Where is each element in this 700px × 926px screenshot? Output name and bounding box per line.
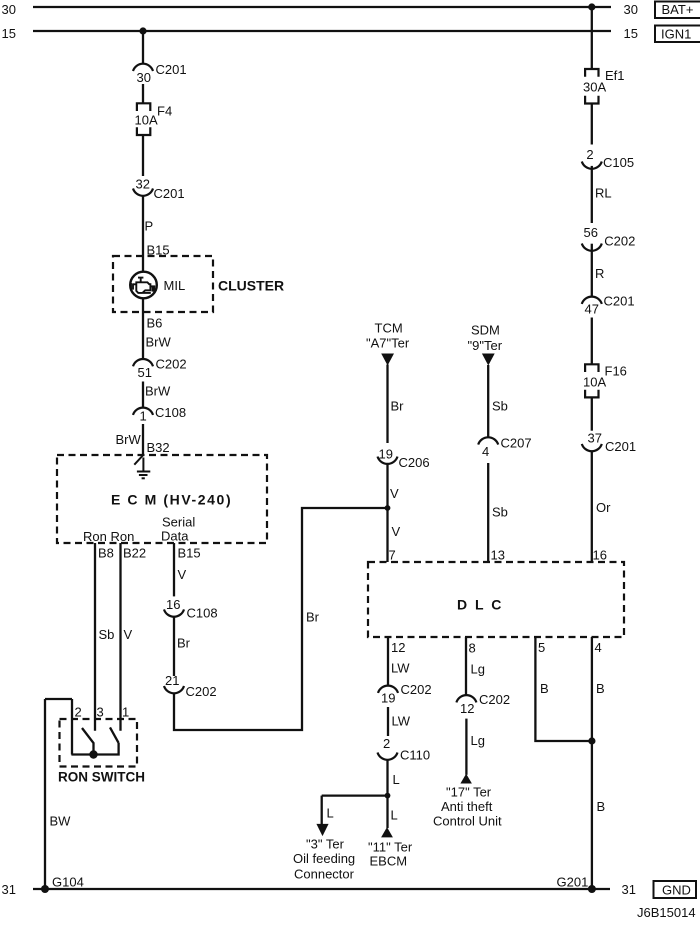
svg-text:C202: C202 [479, 692, 510, 707]
svg-text:C202: C202 [186, 684, 217, 699]
svg-text:C202: C202 [604, 234, 635, 249]
svg-text:Connector: Connector [294, 867, 355, 882]
svg-text:13: 13 [491, 548, 505, 563]
svg-text:L: L [391, 808, 398, 823]
svg-text:4: 4 [482, 444, 489, 459]
svg-text:1: 1 [122, 705, 129, 720]
svg-text:B8: B8 [98, 546, 114, 561]
svg-text:32: 32 [136, 177, 150, 192]
svg-text:15: 15 [624, 26, 638, 41]
svg-text:Lg: Lg [471, 662, 485, 677]
svg-text:B22: B22 [123, 546, 146, 561]
svg-text:Oil feeding: Oil feeding [293, 851, 355, 866]
svg-text:G201: G201 [557, 875, 589, 890]
svg-text:Ron Ron: Ron Ron [83, 529, 134, 544]
svg-text:4: 4 [595, 640, 602, 655]
svg-text:Ef1: Ef1 [605, 68, 625, 83]
svg-text:Serial: Serial [162, 515, 195, 530]
svg-text:SDM: SDM [471, 323, 500, 338]
svg-text:19: 19 [381, 691, 395, 706]
svg-text:10A: 10A [583, 375, 606, 390]
svg-text:5: 5 [538, 640, 545, 655]
svg-text:BAT+: BAT+ [662, 2, 694, 17]
svg-text:3: 3 [97, 705, 104, 720]
svg-text:F16: F16 [605, 364, 627, 379]
svg-text:19: 19 [379, 447, 393, 462]
svg-text:IGN1: IGN1 [661, 27, 691, 42]
svg-text:Lg: Lg [471, 733, 485, 748]
svg-text:V: V [390, 486, 399, 501]
svg-text:C201: C201 [604, 294, 635, 309]
svg-text:V: V [392, 524, 401, 539]
svg-text:Br: Br [391, 399, 405, 414]
svg-text:J6B15014: J6B15014 [637, 905, 696, 920]
svg-text:30: 30 [624, 2, 638, 17]
svg-text:V: V [178, 567, 187, 582]
svg-text:15: 15 [2, 26, 16, 41]
svg-text:C206: C206 [399, 455, 430, 470]
svg-text:LW: LW [391, 661, 410, 676]
svg-text:12: 12 [391, 640, 405, 655]
svg-text:R: R [595, 266, 604, 281]
svg-text:GND: GND [662, 883, 691, 898]
svg-text:CLUSTER: CLUSTER [218, 278, 284, 294]
svg-text:C110: C110 [400, 748, 430, 763]
svg-text:MIL: MIL [164, 278, 186, 293]
svg-text:C108: C108 [187, 606, 218, 621]
svg-text:51: 51 [138, 365, 152, 380]
svg-text:F4: F4 [157, 104, 172, 119]
svg-text:RON SWITCH: RON SWITCH [58, 770, 145, 785]
svg-text:C105: C105 [603, 155, 634, 170]
svg-text:1: 1 [140, 409, 147, 424]
svg-text:C108: C108 [155, 405, 186, 420]
svg-text:47: 47 [585, 302, 599, 317]
svg-text:Control Unit: Control Unit [433, 814, 502, 829]
svg-text:56: 56 [584, 225, 598, 240]
svg-text:8: 8 [469, 641, 476, 656]
svg-text:C202: C202 [156, 357, 187, 372]
svg-text:BrW: BrW [146, 335, 172, 350]
svg-text:31: 31 [2, 882, 16, 897]
svg-text:B: B [597, 799, 606, 814]
svg-text:7: 7 [389, 548, 396, 563]
svg-text:"3" Ter: "3" Ter [306, 837, 345, 852]
svg-text:L: L [393, 772, 400, 787]
svg-text:B15: B15 [178, 546, 201, 561]
svg-text:EBCM: EBCM [370, 854, 408, 869]
svg-text:12: 12 [460, 701, 474, 716]
svg-text:BW: BW [50, 814, 72, 829]
svg-text:C201: C201 [154, 186, 185, 201]
svg-text:V: V [124, 627, 133, 642]
svg-text:16: 16 [593, 548, 607, 563]
svg-text:C207: C207 [501, 436, 532, 451]
svg-text:D L C: D L C [457, 597, 503, 613]
svg-text:L: L [327, 806, 334, 821]
svg-text:Sb: Sb [99, 627, 115, 642]
svg-text:16: 16 [166, 597, 180, 612]
svg-text:"9"Ter: "9"Ter [468, 338, 503, 353]
svg-text:21: 21 [165, 673, 179, 688]
svg-text:Data: Data [161, 529, 189, 544]
svg-text:"11" Ter: "11" Ter [368, 840, 413, 855]
svg-text:Or: Or [596, 500, 611, 515]
svg-text:B32: B32 [147, 440, 170, 455]
svg-text:2: 2 [586, 147, 593, 162]
svg-text:31: 31 [622, 882, 636, 897]
svg-text:"A7"Ter: "A7"Ter [366, 336, 410, 351]
svg-text:Anti theft: Anti theft [441, 799, 493, 814]
svg-text:30: 30 [137, 70, 151, 85]
svg-text:B6: B6 [147, 316, 163, 331]
svg-text:RL: RL [595, 186, 612, 201]
svg-text:B: B [596, 681, 605, 696]
svg-text:2: 2 [75, 705, 82, 720]
svg-text:Sb: Sb [492, 505, 508, 520]
svg-text:C201: C201 [156, 62, 187, 77]
svg-text:Br: Br [306, 610, 320, 625]
svg-text:BrW: BrW [145, 384, 171, 399]
svg-text:C202: C202 [401, 682, 432, 697]
svg-text:P: P [145, 219, 154, 234]
svg-text:2: 2 [383, 736, 390, 751]
svg-text:BrW: BrW [116, 432, 142, 447]
svg-text:E C M (HV-240): E C M (HV-240) [111, 492, 232, 508]
svg-text:LW: LW [392, 714, 411, 729]
svg-text:10A: 10A [135, 113, 158, 128]
svg-text:B15: B15 [147, 243, 170, 258]
svg-text:30A: 30A [583, 80, 606, 95]
svg-text:G104: G104 [52, 875, 84, 890]
svg-text:Sb: Sb [492, 399, 508, 414]
svg-text:B: B [540, 681, 549, 696]
svg-text:Br: Br [177, 636, 191, 651]
svg-text:TCM: TCM [375, 321, 403, 336]
svg-text:37: 37 [588, 431, 602, 446]
svg-text:C201: C201 [605, 439, 636, 454]
svg-text:"17" Ter: "17" Ter [446, 785, 492, 800]
svg-text:30: 30 [2, 2, 16, 17]
